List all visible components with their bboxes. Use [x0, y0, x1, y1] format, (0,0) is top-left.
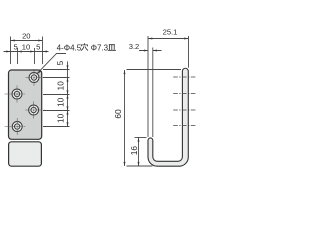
svg-text:3.2: 3.2	[129, 42, 140, 51]
svg-text:25.1: 25.1	[163, 28, 178, 37]
svg-text:20: 20	[22, 31, 30, 40]
svg-text:4-Φ4.5: 4-Φ4.5	[57, 44, 82, 53]
svg-text:10: 10	[22, 43, 30, 52]
svg-text:10: 10	[56, 97, 65, 107]
svg-text:10: 10	[56, 81, 65, 91]
svg-text:10: 10	[56, 113, 65, 123]
svg-text:5: 5	[36, 43, 40, 52]
svg-text:5: 5	[56, 60, 65, 65]
svg-text:5: 5	[13, 43, 17, 52]
svg-text:Φ7.3: Φ7.3	[91, 44, 109, 53]
svg-text:60: 60	[113, 109, 123, 119]
svg-text:16: 16	[129, 146, 139, 156]
